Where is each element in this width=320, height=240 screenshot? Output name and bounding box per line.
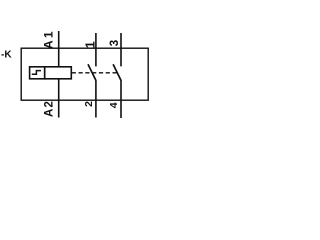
wire: contact terminal 1 lead — [95, 33, 97, 66]
wire: contact terminal 3 lead — [120, 33, 122, 66]
svg-text:A2: A2 — [43, 100, 55, 117]
svg-text:4: 4 — [108, 102, 120, 108]
latching (bistable) step symbol — [32, 71, 41, 75]
svg-text:-K: -K — [1, 50, 12, 61]
contact 1-2 moving blade (NO) — [88, 64, 96, 80]
svg-text:A1: A1 — [41, 29, 55, 49]
wire: contact terminal 4 lead — [120, 80, 122, 118]
svg-text:2: 2 — [83, 101, 95, 107]
wire: contact terminal 2 lead — [95, 80, 97, 118]
svg-text:3: 3 — [109, 40, 121, 46]
wire: A2 lead — [58, 79, 60, 118]
relay coil latching-function box — [30, 67, 45, 79]
mechanical linkage (dashed) coil to contacts — [72, 72, 117, 74]
wire: A1 lead — [58, 31, 60, 67]
relay coil K (main box) — [45, 67, 72, 79]
device outline rectangle — [21, 48, 148, 100]
contact 3-4 moving blade (NO) — [113, 64, 121, 80]
